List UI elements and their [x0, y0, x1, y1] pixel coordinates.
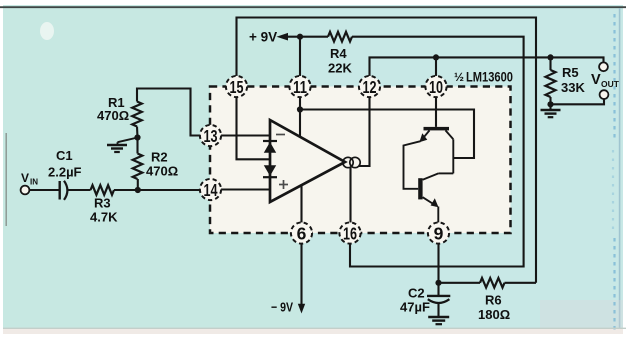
- svg-text:− 9V: − 9V: [271, 300, 293, 315]
- svg-text:15: 15: [230, 77, 244, 97]
- pin 11: [289, 76, 310, 97]
- resistor R5 33K: [546, 57, 586, 104]
- resistor R3 4.7K: [90, 185, 118, 224]
- resistor R1 470 ohm: [97, 95, 142, 127]
- wire: Q2 emitter to pin 9: [437, 207, 439, 223]
- wire: op-amp bottom to pin 6: [300, 185, 302, 223]
- wire: output rail pin 12 / pin 10 to R5 and VOUT: [370, 57, 604, 76]
- node: R2 / R3 / pin 14 junction: [135, 187, 141, 193]
- svg-text:4.7K: 4.7K: [90, 210, 118, 225]
- resistor R2 470 ohm: [133, 138, 178, 191]
- wire: pin 15 to diode junction: [237, 97, 271, 159]
- wire: pin 9 to C2/R6 junction: [437, 244, 439, 283]
- terminal VOUT upper: [599, 62, 608, 71]
- ground at C2: [428, 317, 449, 324]
- resistor R6 180 ohm: [439, 278, 537, 322]
- svg-text:+ 9V: + 9V: [249, 30, 277, 45]
- node: R5 bottom junction: [547, 101, 553, 107]
- svg-text:12: 12: [363, 77, 377, 97]
- pin 14: [200, 179, 221, 200]
- svg-text:R6: R6: [485, 293, 502, 308]
- svg-text:R4: R4: [330, 46, 347, 61]
- node: R5 top junction: [547, 54, 553, 60]
- terminal VIN: [21, 186, 30, 195]
- svg-text:6: 6: [297, 223, 307, 243]
- -9V supply arrow: [298, 304, 305, 314]
- wire: R3 to pin 14: [114, 189, 200, 191]
- svg-text:2.2µF: 2.2µF: [48, 165, 82, 180]
- ground at R1/R2 junction: [107, 138, 138, 153]
- ground at R5: [541, 104, 561, 117]
- svg-text:33K: 33K: [561, 80, 585, 95]
- svg-text:OUT: OUT: [601, 79, 620, 89]
- node: +9V / pin 11 junction: [297, 34, 303, 40]
- wire: pin 10 riser: [435, 57, 437, 76]
- IC U1 (1/2 LM13600) dashed package outline: [210, 87, 511, 234]
- wire: pin 13 to inverting input: [221, 134, 270, 136]
- pin 16: [339, 222, 360, 243]
- svg-text:10: 10: [429, 77, 443, 97]
- svg-text:16: 16: [343, 223, 357, 243]
- capacitor C1 2.2uF: [48, 148, 82, 200]
- svg-text:180Ω: 180Ω: [478, 307, 510, 322]
- terminal VOUT lower: [600, 90, 609, 99]
- wire: R1 bottom to junction: [136, 127, 139, 138]
- node: R1 / R2 / ground junction: [134, 134, 140, 140]
- wire: pin 6 to -9V: [300, 244, 302, 307]
- svg-text:R2: R2: [151, 150, 168, 165]
- svg-text:470Ω: 470Ω: [97, 108, 129, 123]
- svg-text:C2: C2: [408, 286, 425, 301]
- transistor Q1 (upper buffer transistor): [419, 97, 453, 142]
- pin 9: [428, 222, 449, 243]
- current mirror symbol at op-amp output: [343, 157, 360, 167]
- wire: pin 15 riser, top rail and right-side drop to R6: [237, 18, 537, 283]
- svg-text:R3: R3: [94, 196, 111, 211]
- capacitor C2 47uF: [400, 283, 450, 317]
- diode D2 (lower linearizing diode): [263, 165, 277, 177]
- wire: Q1 emitter to Q2 base: [404, 141, 421, 189]
- wire: pin 11 riser to +9V rail: [299, 37, 301, 76]
- node: pin 11 internal junction: [297, 106, 303, 112]
- svg-text:R5: R5: [562, 65, 579, 80]
- svg-text:470Ω: 470Ω: [146, 164, 178, 179]
- pin 6: [291, 222, 312, 243]
- wire: pin 11 to op-amp top / collector rail: [300, 97, 474, 158]
- pin 13: [200, 125, 221, 146]
- svg-text:LM13600: LM13600: [466, 70, 513, 85]
- svg-text:9: 9: [434, 223, 444, 243]
- wire: current mirror to pin 16: [349, 167, 351, 222]
- svg-text:½: ½: [454, 70, 464, 84]
- wire: VOUT lower terminal to R5 bottom: [551, 99, 605, 104]
- wire: VIN to C1: [29, 189, 59, 191]
- wire: pin 14 to non-inverting input: [221, 188, 270, 190]
- op-amp U1 triangle: [270, 120, 345, 202]
- svg-text:C1: C1: [56, 148, 73, 163]
- pin 12: [359, 76, 380, 97]
- wire: collector rail joining Q1 and Q2 collectors: [452, 139, 454, 173]
- wire: R4 to pin 16 (bias path down right side): [350, 37, 524, 267]
- pin 15: [226, 76, 247, 97]
- svg-text:11: 11: [293, 77, 307, 97]
- node: output rail / pin 10 junction: [433, 54, 439, 60]
- svg-text:13: 13: [204, 126, 218, 146]
- transistor Q2 (lower buffer transistor): [418, 173, 453, 207]
- wire: op-amp output to pin 12: [359, 97, 370, 166]
- pin 10: [425, 76, 446, 97]
- label VIN: [21, 171, 38, 187]
- svg-text:V: V: [21, 171, 29, 185]
- svg-text:22K: 22K: [328, 61, 352, 76]
- svg-text:V: V: [591, 72, 601, 88]
- svg-text:47µF: 47µF: [400, 300, 430, 315]
- label VOUT: [591, 72, 620, 89]
- node: pin 9 / C2 / R6 junction: [435, 280, 441, 286]
- diode D1 (upper linearizing diode): [263, 141, 277, 153]
- wire: C1 to R3: [68, 189, 91, 191]
- svg-text:14: 14: [204, 180, 218, 200]
- svg-text:IN: IN: [30, 178, 38, 187]
- +9V supply arrow: [277, 33, 329, 41]
- resistor R4: [328, 32, 352, 76]
- label 1/2 LM13600: [454, 70, 513, 85]
- wire: R1 top to pin 13: [137, 89, 200, 136]
